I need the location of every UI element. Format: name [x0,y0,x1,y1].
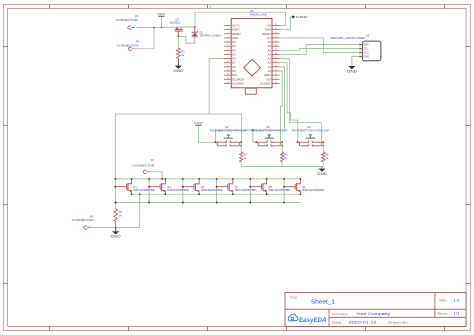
node R1 bottom junction [115,227,117,229]
node Q4 gate junction [216,186,218,188]
svg-text:CONNECTOR: CONNECTOR [116,18,138,22]
wire OLED GND down [352,57,359,66]
svg-text:ARDUINO_NANO: ARDUINO_NANO [250,12,268,16]
mosfet Q1 IRF3205PBF [115,179,156,194]
wire VCC bus above buttons [216,130,285,142]
svg-text:RESET: RESET [262,32,271,36]
node Q7 drain junction [178,35,180,37]
svg-text:+5V: +5V [266,36,271,40]
resistor R5 1k [322,142,330,166]
svg-text:D5: D5 [232,52,236,56]
node Q3 gate junction [182,186,184,188]
node Q4 source junction [232,193,234,195]
svg-text:Company:: Company: [332,312,349,316]
node Q6 source junction [300,193,302,195]
svg-text:GND: GND [232,36,238,40]
node Q6 gate rail3 [283,202,285,204]
wire Q7 to D1 anode [178,36,194,43]
mosfet Q4 IRF3205PBF [217,179,258,194]
wire gate column Q1 [114,179,116,203]
svg-text:CONNECTOR: CONNECTOR [132,163,154,167]
svg-text:D3: D3 [232,44,236,48]
svg-text:P2: P2 [151,158,155,162]
mosfet Q3 IRF3205PBF [183,179,224,194]
connector P2 [132,158,154,173]
svg-text:SDA: SDA [363,43,369,47]
node U4 pin3 junction [322,141,324,143]
svg-text:1.0: 1.0 [454,299,460,303]
svg-text:D1/TX: D1/TX [232,24,240,28]
node U4 pin4 junction [322,145,324,147]
svg-text:SCL: SCL [363,47,369,51]
node Q2 drain junction [164,178,166,180]
mosfet Q6 IRF3205PBF [284,179,325,194]
svg-text:D2: D2 [232,40,236,44]
wire P1 net (y=27.6) [137,26,195,29]
node Q5 gate rail3 [249,202,251,204]
node D1 top junction [194,26,196,28]
node Q2 gate rail3 [148,202,150,204]
svg-text:U2: U2 [225,125,229,129]
svg-text:GND: GND [363,55,369,59]
zener diode D1 ZM4746A [191,27,221,39]
mosfet Q2 IRF3205PBF [149,179,190,194]
svg-text:R2: R2 [181,49,185,53]
svg-text:IRF3205PBF: IRF3205PBF [133,189,156,192]
svg-text:D10: D10 [232,73,237,77]
node U2 pin3 junction [240,141,242,143]
wire gate branch to Q1 column [115,114,209,179]
wire P6 to R1 bottom [91,227,116,229]
node Q1 gate rail1 [114,178,116,180]
svg-text:ZM4746A_CS4614: ZM4746A_CS4614 [200,34,221,38]
wire gate column Q4 [216,179,218,203]
node Q1 gate rail3 [114,202,116,204]
svg-text:SSD1306_128x32 OLED: SSD1306_128x32 OLED [330,36,365,40]
node P4 riser junction [153,27,155,29]
EasyEDA logo [288,314,327,324]
node Q5 source junction [266,193,268,195]
svg-text:CONNECTOR: CONNECTOR [72,218,94,222]
ground below R1 [111,228,122,239]
svg-text:Your Company: Your Company [356,312,390,316]
wire gate column Q6 [283,179,285,203]
wire drain rail (top) [115,178,300,180]
resistor R3 1k [240,142,248,166]
ground below R2 [173,65,184,73]
wire P1 net to VIN (over the top) [195,12,286,27]
node Q1 gate junction [114,186,116,188]
node U2 pin1 junction [215,141,217,143]
svg-text:RESET: RESET [232,32,241,36]
wire A0 to U3 right [280,71,283,141]
node P2 tap on drain rail [161,178,163,180]
node U3 pin4 junction [281,145,283,147]
node Q6 gate rail1 [283,178,285,180]
svg-text:D0/RX: D0/RX [232,28,240,32]
svg-text:3V3: 3V3 [266,77,271,81]
svg-text:R1: R1 [119,210,123,214]
svg-text:Date:: Date: [332,321,343,325]
wire gate column Q3 [182,179,184,203]
svg-text:PUSHBUTTON 4 PIN DIP: PUSHBUTTON 4 PIN DIP [251,129,288,133]
node Q3 gate rail1 [182,178,184,180]
connector P4 [117,40,140,51]
node Q5 gate rail1 [249,178,251,180]
node Q2 source junction [164,193,166,195]
svg-text:IRF3205PBF: IRF3205PBF [268,189,291,192]
resistor R2 [177,36,186,65]
svg-text:D9: D9 [232,69,236,73]
wire A2 to U4 left [280,63,298,142]
wire A5 to OLED SCL [280,49,359,51]
node Q2 gate junction [148,186,150,188]
wire gate rail (bottom) [115,202,300,204]
svg-text:GND: GND [173,69,184,73]
svg-text:VCC: VCC [363,51,369,55]
node Q3 drain junction [198,178,200,180]
svg-text:U5: U5 [366,33,370,37]
svg-text:D4: D4 [232,48,236,52]
wire A1 to VCC bus [280,67,285,130]
wire A4 to OLED SDA [280,45,359,55]
svg-text:PUSHBUTTON 4 PIN DIP: PUSHBUTTON 4 PIN DIP [292,129,329,133]
node Q1 drain junction [131,178,133,180]
svg-text:EasyEDA: EasyEDA [299,317,327,324]
power flag VCC top [157,12,167,28]
svg-text:IRF3205PBF: IRF3205PBF [201,189,224,192]
svg-text:PUSHBUTTON 4 PIN DIP: PUSHBUTTON 4 PIN DIP [210,129,247,133]
node Q4 gate rail1 [216,178,218,180]
svg-text:GND: GND [347,69,358,73]
svg-text:Drawn By:: Drawn By: [388,321,409,325]
connector P1 [116,14,140,29]
node VCC bus tap for U3 [252,129,254,131]
resistor R1 1k [114,203,123,228]
svg-text:D13/SCK: D13/SCK [260,81,271,85]
svg-text:VCC: VCC [157,12,167,16]
wire D6 down-left (gates / U2 signal net) [209,59,241,141]
node source drop [139,193,141,195]
ground below R5 bus [317,166,328,176]
svg-text:TITLE:: TITLE: [290,295,299,299]
svg-text:2020-01-12: 2020-01-12 [349,321,377,325]
ground below OLED [347,66,358,74]
svg-text:REV:: REV: [439,299,447,303]
mcu U6 ARDUINO_NANO [231,9,272,94]
svg-text:GND: GND [111,235,122,239]
wire gate column Q2 [148,179,150,203]
mosfet Q5 IRF3205PBF [250,179,291,194]
svg-text:AREF: AREF [264,73,271,77]
node Q5 drain junction [266,178,268,180]
svg-text:IRF3205PBF: IRF3205PBF [302,189,325,192]
node U4 pin1 junction [297,141,299,143]
node Q3 source junction [198,193,200,195]
svg-text:VIN: VIN [267,24,271,28]
oled U5 SSD1306_128x32 [330,33,381,61]
pushbutton U4 4 PIN DIP [292,125,329,148]
svg-text:D12/MISO: D12/MISO [232,81,244,85]
ground flag near VIN [280,15,308,30]
wire +5V to OLED VCC [280,38,359,53]
wire P2 to drain rail [150,172,162,179]
svg-text:VCC: VCC [194,121,204,125]
wire button pulldown bus to GND [241,165,322,167]
node Q4 gate rail3 [216,202,218,204]
node Q4 drain junction [232,178,234,180]
U6 left pins 1-15 [224,24,244,86]
svg-text:Sheet:: Sheet: [437,312,448,316]
svg-text:D6: D6 [232,57,236,61]
svg-text:Sheet_1: Sheet_1 [311,300,335,306]
power flag VCC buttons [194,121,215,142]
transistor Q7 SI2301 [170,17,183,36]
svg-text:U3: U3 [266,125,270,129]
svg-text:GND: GND [317,172,328,176]
svg-text:1/1: 1/1 [454,312,460,316]
node Q3 gate rail3 [182,202,184,204]
pushbutton U2 4 PIN DIP [210,125,247,148]
svg-text:GND: GND [265,28,271,32]
svg-text:D8: D8 [232,65,236,69]
node U3 pin1 junction [255,141,257,143]
node U3 pin3 junction [281,141,283,143]
connector P6 [72,215,94,230]
pushbutton U3 4 PIN DIP [251,125,288,148]
wire source rail (middle) [132,193,301,195]
wire A3 to U4 right [280,59,322,142]
node Q5 gate junction [249,186,251,188]
node R1 top junction [115,202,117,204]
wire VCC bus drop to U3 left [253,130,256,142]
resistor R4 1k [280,142,288,166]
svg-text:U4: U4 [307,125,311,129]
wire gate column Q5 [249,179,251,203]
title block [285,293,466,327]
svg-text:D7: D7 [232,61,236,65]
wire P4 to P1 net [135,28,154,49]
wire source rail drop to gnd bus [116,194,140,227]
node Q2 gate rail1 [148,178,150,180]
svg-text:GND: GND [296,15,307,19]
node U2 pin4 junction [240,145,242,147]
svg-text:D11/MOSI: D11/MOSI [232,77,244,81]
U6 right pins 16-30 [260,24,279,86]
svg-text:IRF3205PBF: IRF3205PBF [167,189,190,192]
svg-text:CONNECTOR: CONNECTOR [117,43,139,47]
svg-text:IRF3205PBF: IRF3205PBF [235,189,258,192]
node Q6 gate junction [283,186,285,188]
node Q6 drain junction [300,178,302,180]
node Q1 source junction [131,193,133,195]
svg-text:SI2301: SI2301 [170,21,181,25]
node VCC drop junction [161,27,163,29]
